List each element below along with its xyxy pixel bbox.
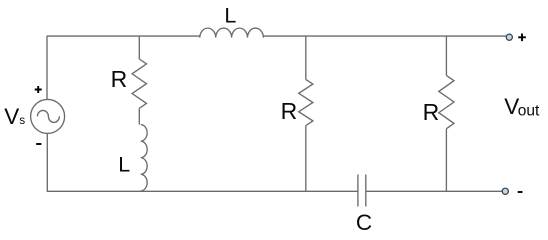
svg-text:C: C (356, 210, 372, 235)
svg-text:Vout: Vout (504, 94, 540, 120)
svg-text:R: R (281, 98, 298, 124)
svg-text:R: R (423, 99, 440, 125)
svg-text:R: R (111, 66, 128, 92)
svg-text:L: L (224, 3, 236, 27)
svg-text:L: L (118, 152, 130, 176)
svg-text:Vs: Vs (4, 104, 25, 129)
